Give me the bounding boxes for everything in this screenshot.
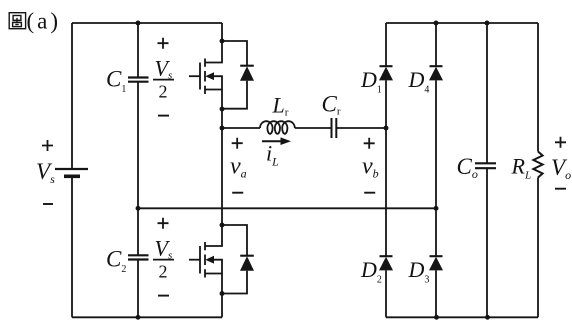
wire va vertical [221,109,223,225]
svg-text:va: va [230,154,247,181]
wire right edge upper [537,23,539,152]
capacitor C1 [128,78,149,82]
C1 Vs/2 fraction [153,56,174,102]
transistor Q2 [189,225,222,294]
wire left edge upper [71,23,73,169]
svg-text:D2: D2 [360,257,382,286]
wire vb vertical lower [385,270,387,317]
C2 minus label [158,295,169,297]
wire mid rail [138,207,436,209]
svg-text:Co: Co [457,154,478,181]
node dot tank left va [220,126,225,131]
wire tank right segment [336,127,386,129]
inductor Lr [260,121,295,134]
wire left edge lower [71,176,73,317]
svg-text:Vs: Vs [155,56,173,82]
wire bottom rail right block [386,316,538,318]
svg-text:vb: vb [362,154,379,181]
output minus label [555,188,566,190]
svg-text:C2: C2 [106,247,126,276]
wire bottom rail left block [72,316,222,318]
vb minus label [364,192,375,194]
svg-text:D4: D4 [408,67,430,96]
wire vb vertical middle [385,80,387,256]
node dot bottom rail left [136,315,141,320]
wire capacitor branch lower [137,260,139,318]
svg-text:Cr: Cr [322,92,341,118]
wire top rail left block [72,22,222,24]
vb plus label [364,138,375,149]
C1 plus label [158,38,169,49]
wire tank left segment [222,127,260,129]
wire D4 branch upper [435,23,437,66]
battery Vs [55,169,88,176]
wire Q2 source to bottom rail [221,294,223,318]
C2 Vs/2 fraction [153,236,174,282]
va plus label [232,138,243,149]
va minus label [232,192,243,194]
node dot bottom rail D3 [434,315,439,320]
wire capacitor branch middle [137,82,139,256]
svg-text:iL: iL [266,141,279,169]
output plus label [555,137,566,148]
node dot Q1 source [220,107,225,112]
wire tank middle segment [295,127,332,129]
node dot Q2 drain [220,223,225,228]
C2 plus label [158,218,169,229]
battery plus label [42,140,53,151]
wire Co branch upper [486,23,488,163]
svg-text:(a): (a) [27,9,62,34]
diode D3 [429,256,443,270]
transistor Q1 [189,41,222,109]
svg-text:Vs: Vs [155,236,173,262]
diode D2 [379,256,393,270]
wire top rail drop to Q1 [221,23,223,41]
battery minus label [43,203,53,205]
svg-text:D3: D3 [408,257,430,286]
wire vb vertical upper [385,23,387,66]
wire D3 branch lower [435,270,437,317]
capacitor C2 [128,255,149,259]
node dot top rail Co [485,21,490,26]
svg-text:Lr: Lr [272,93,289,119]
current arrow iL [262,137,291,145]
wire capacitor branch upper [137,23,139,77]
capacitor Cr [332,118,337,138]
diode D1 [379,66,393,80]
resistor RL [533,152,542,178]
svg-text:Vo: Vo [551,155,571,182]
svg-text:2: 2 [159,82,168,102]
svg-text:2: 2 [159,262,168,282]
node dot Q2 source [220,291,225,296]
node dot tank right vb [384,126,389,131]
svg-text:RL: RL [511,154,532,182]
capacitor Co [475,163,496,168]
node dot mid rail left [136,206,141,211]
svg-text:C1: C1 [106,67,126,96]
svg-text:D1: D1 [360,67,382,96]
wire right edge lower [537,178,539,318]
node dot top rail D4 [434,21,439,26]
body diode of Q1 [222,41,254,109]
C1 minus label [158,115,169,117]
wire D4-D3 branch middle [435,80,437,256]
node dot mid rail right [434,206,439,211]
node dot left top rail [136,21,141,26]
body diode of Q2 [222,225,254,294]
node dot bottom rail Co [485,315,490,320]
diode D4 [429,66,443,80]
node dot Q1 drain top [220,39,225,44]
svg-text:Vs: Vs [36,159,55,186]
figure label 圖(a) [9,9,61,34]
wire Co branch lower [486,168,488,317]
wire top rail right block [386,22,538,24]
